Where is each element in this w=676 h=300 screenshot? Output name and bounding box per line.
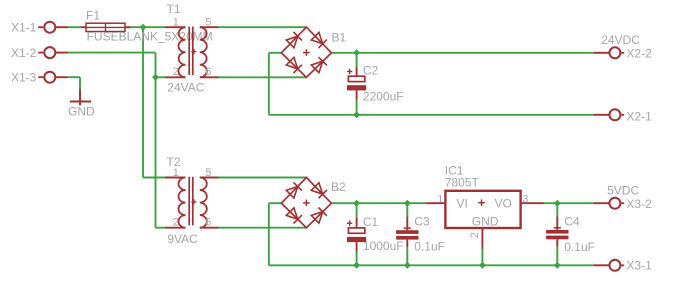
capacitor C2 plus mark	[347, 71, 352, 73]
svg-text:T1: T1	[167, 2, 181, 16]
connector pin X2-2	[609, 47, 624, 58]
svg-text:1: 1	[437, 193, 443, 205]
transformer T1 core	[188, 27, 190, 76]
capacitor C1 pin wires	[356, 203, 358, 218]
capacitor C2 bottom plate	[347, 85, 366, 90]
junction C1 bottom	[353, 262, 360, 269]
svg-text:7805T: 7805T	[445, 175, 480, 189]
svg-text:X2-1: X2-1	[626, 110, 652, 124]
junction C2 bottom	[353, 111, 360, 118]
svg-text:F1: F1	[86, 9, 100, 23]
svg-text:VO: VO	[495, 197, 512, 211]
svg-text:FUSEBLANK_5X20MM: FUSEBLANK_5X20MM	[87, 30, 213, 44]
transformer T2 pin 1 wire	[165, 177, 186, 179]
svg-text:0.1uF: 0.1uF	[414, 239, 445, 253]
wire node A vertical to T2	[142, 27, 144, 177]
connector pin X3-2	[609, 198, 624, 209]
transformer T2 primary coil	[179, 178, 186, 228]
junction IC1 ground	[479, 262, 486, 269]
junction C4 bottom	[554, 262, 561, 269]
wire to T2 pin 2	[156, 227, 166, 229]
svg-text:24VDC: 24VDC	[601, 33, 640, 47]
svg-text:C1: C1	[363, 215, 379, 229]
B2 diode D1	[286, 187, 297, 199]
B2 diode D3	[286, 208, 297, 220]
svg-text:5: 5	[205, 167, 211, 179]
svg-text:C3: C3	[414, 215, 430, 229]
transformer T2 polarity plus	[191, 201, 196, 203]
wire to X3-2 pin	[594, 202, 610, 204]
capacitor C1 top plate	[348, 228, 364, 233]
svg-text:2: 2	[173, 217, 179, 229]
wire B2 plus to IC1 input	[331, 202, 427, 204]
transformer T1 pin 2 wire	[165, 76, 186, 78]
svg-text:B1: B1	[332, 31, 347, 45]
svg-text:VI: VI	[457, 197, 468, 211]
transformer T2 secondary coil	[200, 178, 207, 228]
transformer T1 pin 5 wire	[200, 26, 219, 28]
B1 diode D4	[311, 61, 322, 72]
fuse F1 body	[86, 23, 125, 31]
capacitor C3 top plate	[396, 230, 418, 234]
wire to X2-2 pin	[594, 52, 610, 54]
capacitor C2 top plate	[348, 76, 364, 81]
svg-text:6: 6	[205, 66, 211, 78]
fuse F1 pin wires	[81, 26, 86, 28]
wire to X2-1 pin	[594, 114, 610, 116]
transformer T2 pin 2 wire	[165, 227, 186, 229]
wire to X3-1 pin	[594, 264, 610, 266]
wire 24V return rail	[269, 114, 595, 116]
capacitor C3 plus tick	[404, 227, 411, 229]
svg-text:1: 1	[173, 167, 179, 179]
svg-text:1: 1	[173, 17, 179, 29]
svg-text:GND: GND	[68, 104, 95, 118]
bridge rectifier B1 body	[281, 27, 331, 77]
transformer T1 polarity plus	[191, 51, 196, 53]
capacitor C1 bottom plate	[347, 237, 366, 242]
svg-text:C4: C4	[564, 215, 580, 229]
svg-text:6: 6	[205, 217, 211, 229]
IC1 pin 2 wire	[481, 229, 483, 250]
transformer T1 primary coil	[178, 27, 185, 77]
svg-text:GND: GND	[472, 215, 499, 229]
svg-text:B2: B2	[331, 180, 346, 194]
junction C1 top	[353, 200, 360, 207]
capacitor C3 bottom plate	[396, 236, 418, 240]
wire ground rail	[269, 264, 595, 266]
svg-text:5VDC: 5VDC	[607, 183, 639, 197]
svg-text:1000uF: 1000uF	[363, 239, 404, 253]
svg-text:X3-2: X3-2	[626, 197, 652, 211]
connector pin X1-3	[38, 72, 67, 83]
wire B2 minus vertical	[268, 203, 270, 265]
wire T1 pin 6 to B1	[219, 76, 307, 78]
ground	[70, 90, 91, 106]
B2 diode D4	[311, 212, 322, 224]
wire B1 plus to X2-2	[331, 52, 594, 54]
capacitor C3 pin wires	[406, 203, 408, 217]
B2 plus polarity mark	[303, 202, 310, 204]
connector pin X1-1	[38, 22, 68, 33]
svg-text:X2-2: X2-2	[626, 46, 652, 60]
wire IC1 output to X3-2	[543, 202, 595, 204]
connector pin X1-2	[38, 47, 68, 58]
node A junction	[140, 24, 147, 31]
svg-text:X1-2: X1-2	[11, 46, 37, 60]
B1 plus polarity mark	[303, 52, 310, 54]
svg-text:2200uF: 2200uF	[363, 89, 404, 103]
svg-text:X3-1: X3-1	[626, 258, 652, 272]
B1 diode D1	[286, 36, 297, 47]
wire X1-1 to fuse	[68, 26, 82, 28]
transformer T2 pin 6 wire	[200, 227, 219, 229]
capacitor C4 pin wires	[556, 203, 558, 217]
svg-text:2: 2	[173, 66, 179, 78]
node B junction	[152, 74, 159, 81]
capacitor C4 plus tick	[554, 227, 561, 229]
capacitor C2 pin wires	[356, 53, 358, 68]
transformer T1 pin 6 wire	[200, 76, 219, 78]
capacitor C4 bottom plate	[546, 236, 568, 240]
svg-text:3: 3	[522, 193, 528, 205]
svg-text:X1-1: X1-1	[11, 21, 37, 35]
wire X1-2 vertical to T2	[155, 53, 157, 228]
capacitor C4 top plate	[546, 230, 568, 234]
wire X1-2 horizontal	[68, 52, 156, 54]
wire B1 minus stub	[269, 52, 282, 54]
svg-text:9VAC: 9VAC	[167, 232, 198, 246]
junction C2 top	[353, 49, 360, 56]
wire X1-3 to ground	[68, 76, 81, 78]
IC1 plus mark	[478, 202, 485, 204]
B2 diode D2	[311, 183, 322, 195]
transformer T2 core	[188, 177, 190, 226]
wire node B to T1 pin 2	[156, 76, 166, 78]
wire T2 pin 5 to B2	[219, 177, 307, 179]
transformer T1 pin 1 wire	[165, 26, 186, 28]
B1 diode D3	[286, 57, 297, 69]
bridge rectifier B2 body	[281, 178, 331, 228]
capacitor C1 plus mark	[347, 222, 352, 224]
svg-text:2: 2	[469, 232, 481, 238]
svg-text:X1-3: X1-3	[11, 71, 37, 85]
connector pin X3-1	[609, 260, 624, 271]
wire T1 pin 5 to B1	[219, 26, 307, 28]
svg-text:0.1uF: 0.1uF	[564, 240, 595, 254]
junction C3 top	[404, 200, 411, 207]
connector pin X2-1	[609, 109, 624, 120]
junction C4 top	[554, 200, 561, 207]
wire T2 pin 6 to B2	[219, 227, 307, 229]
IC1 pin 3 wire	[520, 202, 543, 204]
op-amp U1 equivalent: regulator IC1 pin 1 wire	[427, 202, 446, 204]
wire B2 minus stub	[269, 202, 282, 204]
svg-text:24VAC: 24VAC	[167, 81, 204, 95]
wire fuse to T1 pin 1	[130, 26, 165, 28]
transformer T2 pin 5 wire	[200, 177, 219, 179]
junction C3 bottom	[404, 262, 411, 269]
svg-text:C2: C2	[363, 63, 379, 77]
transformer T1 secondary coil	[200, 27, 207, 77]
regulator IC1 body	[445, 191, 520, 228]
svg-text:5: 5	[205, 17, 211, 29]
wire B1 minus vertical	[268, 53, 270, 115]
wire to T2 pin 1	[143, 177, 165, 179]
B1 diode D2	[311, 32, 322, 43]
